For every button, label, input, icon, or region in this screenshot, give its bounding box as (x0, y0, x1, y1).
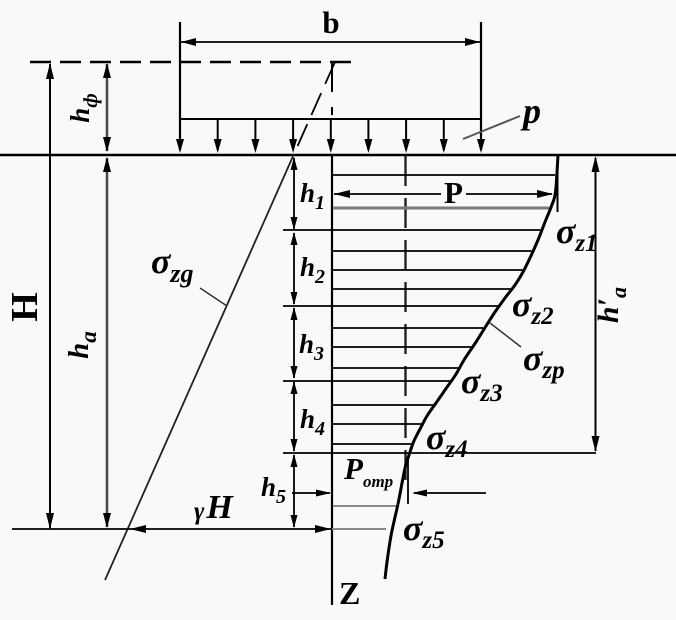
sigma_zg diagonal line below ground (105, 154, 294, 580)
dimension h_f vertical line (103, 63, 111, 152)
hatch lines of stress diagram (333, 175, 555, 444)
ordinate tick at sigma_z1 (557, 156, 559, 212)
layer dimension chain h1 (291, 157, 298, 230)
P_otr dimension arrow left (to axis) (292, 492, 330, 494)
sigma_zg diagonal dashed above ground (294, 62, 335, 154)
stress curve sigma_zp (385, 155, 558, 579)
dimension P line with arrows (334, 190, 553, 198)
layer dimension chain h3 (291, 307, 298, 379)
foundation centerline above ground (331, 62, 333, 92)
dimension h'_a vertical line right side (592, 156, 600, 452)
svg-text:P: P (444, 175, 463, 210)
label p with leader (463, 116, 520, 139)
bottom reference line at depth H (12, 528, 332, 530)
ground surface line (0, 154, 676, 156)
ordinate tick at sigma_z4 level (407, 456, 409, 504)
svg-text:Z: Z (339, 575, 360, 611)
layer dimension chain h5 (291, 454, 298, 528)
dashed natural-ground level line (30, 61, 352, 63)
layer dimension chain h4 (291, 381, 298, 452)
layer dimension chain h2 (291, 232, 298, 305)
dimension b line with arrows (181, 38, 480, 46)
foundation left edge (179, 22, 181, 150)
label sigma_zp with leader (490, 323, 521, 347)
dimension H vertical line (46, 63, 54, 529)
layer boundary line h1/h2 (283, 229, 541, 231)
svg-text:p: p (520, 91, 541, 131)
P_otr dimension arrow right (to ordinate tick) (414, 492, 486, 494)
gamma H dimension arrows (130, 525, 146, 533)
dashed vertical line under footing quarter point (404, 156, 406, 487)
svg-text:H: H (4, 292, 46, 322)
svg-text:b: b (322, 5, 339, 40)
layer boundary line h4/h5 extended to h'a dimension (283, 452, 596, 454)
foundation right edge (480, 22, 482, 150)
dimension h_a vertical line (103, 157, 111, 528)
layer boundary line h2/h3 (283, 305, 498, 307)
layer boundary line h3/h4 (283, 380, 450, 382)
footing bottom line (180, 118, 481, 120)
z axis below ground (331, 155, 333, 605)
pressure arrows p (distributed load) (218, 119, 444, 150)
